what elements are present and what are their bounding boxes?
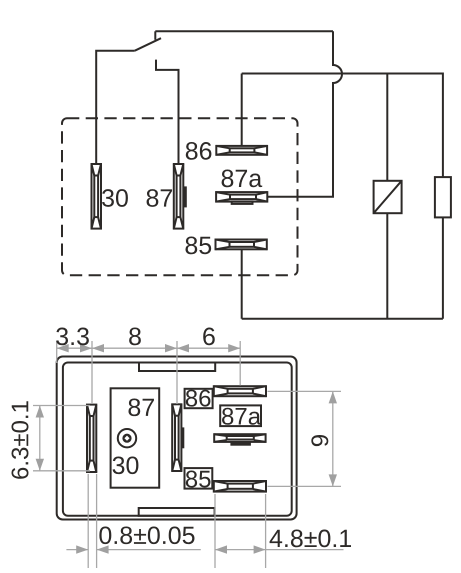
- rivet circle: [118, 429, 136, 447]
- slot terminal 86: [214, 386, 266, 396]
- arrow 8 left: [92, 344, 104, 352]
- dim text 3.3: [56, 328, 89, 346]
- left dim extension top: [33, 405, 90, 407]
- coil symbol (box with diagonal): [374, 181, 402, 213]
- label 87a: [222, 170, 263, 188]
- arrow 8 right: [165, 344, 177, 352]
- bottom ext slot30 right: [96, 474, 98, 568]
- bottom ext slot85 right: [265, 494, 267, 568]
- label box 86: [185, 389, 213, 408]
- terminal blade 87: [174, 164, 187, 229]
- arrow 4.8 right: [254, 545, 266, 553]
- arrow 6 left: [177, 344, 189, 352]
- wire switch NO contact to terminal 87: [156, 60, 179, 164]
- wire from terminal 30 to switch: [96, 51, 135, 164]
- arrow 6.3 bottom: [36, 459, 44, 471]
- switch blade (movable contact): [135, 38, 161, 51]
- extension line slot30 centerline: [91, 341, 93, 404]
- right dimension line 9: [332, 391, 334, 486]
- dim text 6: [203, 328, 215, 346]
- extension line relay left edge: [56, 341, 58, 363]
- label box 85: [185, 468, 213, 489]
- label 85 boxed: [186, 471, 211, 488]
- terminal blade 87a: [216, 192, 267, 204]
- bottom ext slot85 left: [214, 494, 216, 568]
- center label box 87/30: [111, 388, 160, 487]
- arrow 3.3 left: [57, 344, 69, 352]
- left dim extension bottom: [33, 470, 90, 472]
- wire 86 horizontal to resistor branch: [242, 74, 443, 178]
- arrow 6.3 top: [36, 406, 44, 418]
- resistor R: [435, 177, 451, 217]
- relay dashed outline box: [62, 118, 298, 275]
- terminal blade 86: [216, 146, 267, 155]
- top dimension line: [57, 347, 241, 349]
- wire 87a riser with hop over 86 wire: [267, 31, 342, 197]
- label 30 in center box: [113, 456, 139, 474]
- extension line slot87 centerline: [176, 341, 178, 404]
- label 87a boxed: [222, 408, 261, 425]
- arrow 0.8 right outside: [97, 545, 109, 553]
- terminal blade 30: [92, 164, 102, 229]
- label 87 in center box: [128, 398, 153, 416]
- rivet highlight: [124, 436, 129, 441]
- wire bottom return to 85: [242, 318, 443, 320]
- arrow 3.3 right: [80, 344, 92, 352]
- label 85: [185, 237, 211, 255]
- switch pivot tick: [154, 31, 156, 40]
- wire coil branch top: [386, 74, 388, 181]
- dim text 0.8±0.05: [99, 526, 194, 544]
- wire resistor bottom: [442, 217, 444, 318]
- label 86 boxed: [186, 390, 211, 407]
- arrow 4.8 left: [215, 545, 227, 553]
- slot terminal 85: [214, 481, 266, 492]
- wire from terminal 86 riser: [241, 74, 243, 146]
- top notch: [139, 363, 215, 372]
- bottom dimension line 0.8 with leader: [66, 549, 200, 551]
- relay body inner outline: [63, 363, 292, 516]
- label 30: [102, 189, 128, 207]
- slot terminal 30 (left): [87, 405, 96, 472]
- right dim extension bottom: [268, 485, 342, 487]
- extension line slot86 centerline: [239, 341, 241, 386]
- slot terminal 87a: [214, 434, 265, 445]
- left dimension line 6.3: [39, 406, 41, 471]
- dim text 8: [129, 328, 141, 346]
- wire coil bottom: [386, 213, 388, 319]
- relay body outer outline: [57, 357, 297, 520]
- label 86: [186, 142, 212, 160]
- arrow 6 right: [228, 344, 240, 352]
- label box 87a: [220, 405, 261, 426]
- dim text 4.8±0.1: [270, 530, 351, 548]
- arrow 9 bottom: [329, 474, 337, 486]
- slot terminal 87 (center): [172, 404, 184, 471]
- arrow 9 top: [329, 391, 337, 403]
- dim text 9: [311, 435, 328, 446]
- arrow 0.8 left outside: [76, 545, 88, 553]
- right dim extension top: [268, 390, 342, 392]
- bottom notch: [139, 508, 215, 516]
- wire 85 drop: [241, 249, 243, 318]
- rivet center: [122, 434, 131, 443]
- label 87: [147, 189, 172, 207]
- dim text 6.3±0.1: [11, 401, 28, 479]
- bottom dimension line 4.8 with leader: [215, 549, 344, 551]
- wire top line to 87a riser: [155, 30, 333, 32]
- bottom ext slot30 left: [87, 474, 89, 568]
- terminal blade 85: [216, 240, 267, 250]
